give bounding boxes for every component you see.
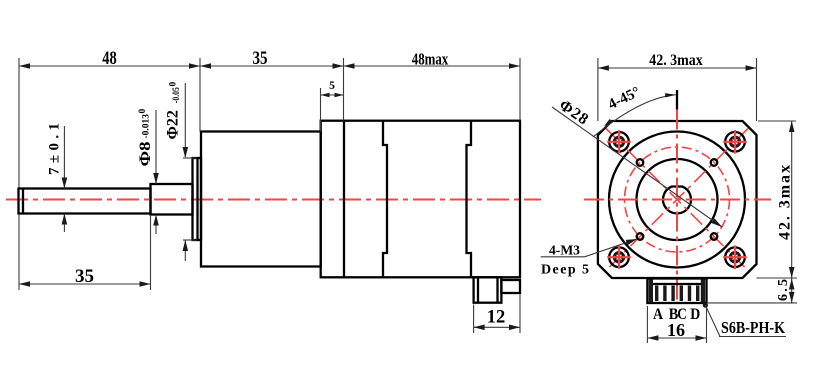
dimension 42.3max top bbox=[598, 52, 757, 121]
connector tab side view bbox=[501, 280, 520, 293]
side view centerline bbox=[6, 199, 541, 201]
dimension 5 bbox=[321, 80, 344, 132]
dimension phi22 tolerance bbox=[165, 82, 198, 262]
M3 hole top-left bbox=[637, 159, 644, 166]
svg-text:42. 3max: 42. 3max bbox=[649, 52, 703, 69]
dimension 6.5 bbox=[708, 278, 797, 303]
svg-text:35: 35 bbox=[75, 267, 94, 287]
front view horizontal centerline bbox=[584, 199, 771, 201]
svg-text:0: 0 bbox=[169, 82, 179, 87]
svg-text:Φ22: Φ22 bbox=[165, 110, 182, 140]
dimension 35 top bbox=[200, 49, 344, 132]
label 4-M3 Deep 5 with leader bbox=[541, 239, 637, 278]
shaft collar bbox=[151, 184, 193, 215]
dimension 7 plus-minus 0.1 bbox=[47, 123, 68, 232]
svg-text:12: 12 bbox=[487, 307, 506, 328]
svg-text:-0.05: -0.05 bbox=[172, 87, 182, 103]
svg-text:S6B-PH-K: S6B-PH-K bbox=[721, 318, 785, 337]
label phi28 with leader bbox=[552, 97, 722, 227]
M3 hole bottom-left bbox=[637, 233, 644, 240]
dimension 48max bbox=[344, 50, 521, 121]
M3 hole top-right bbox=[711, 159, 718, 166]
dimension 42.3max right bbox=[757, 121, 798, 278]
svg-text:5: 5 bbox=[329, 80, 335, 92]
shaft bbox=[19, 189, 151, 214]
svg-text:0: 0 bbox=[138, 109, 148, 114]
front view vertical centerline bbox=[676, 110, 678, 304]
diagonal centerline 2 bbox=[606, 129, 748, 271]
front view pilot circle phi22 bbox=[637, 159, 718, 240]
lamination stack right edge bbox=[467, 121, 472, 278]
svg-text:Φ8: Φ8 bbox=[137, 141, 154, 166]
corner screw bottom-left bbox=[607, 245, 631, 269]
dimension 48 bbox=[19, 49, 200, 188]
svg-text:42. 3max: 42. 3max bbox=[777, 165, 794, 240]
svg-text:-0.013: -0.013 bbox=[142, 114, 152, 139]
svg-text:48: 48 bbox=[102, 49, 117, 69]
svg-text:A: A bbox=[653, 306, 663, 323]
dimension 12 bbox=[474, 295, 520, 334]
M3 hole bottom-right bbox=[711, 233, 718, 240]
front view flange outline bbox=[598, 121, 757, 278]
svg-text:35: 35 bbox=[253, 49, 268, 69]
svg-text:D: D bbox=[690, 306, 700, 323]
front view gearbox circle phi36 bbox=[609, 132, 745, 268]
corner screw bottom-right bbox=[723, 245, 747, 269]
pin labels A B C D bbox=[653, 306, 700, 323]
pilot boss bbox=[193, 158, 202, 240]
bolt circle phi28 red dashed bbox=[625, 147, 730, 252]
front view shaft circle with flat bbox=[663, 187, 691, 214]
dimension 16 bbox=[647, 306, 706, 343]
diagonal centerline 1 bbox=[606, 129, 748, 271]
corner screw top-left bbox=[607, 130, 631, 154]
corner screw top-right bbox=[723, 130, 747, 154]
label S6B-PH-K with leader bbox=[703, 303, 786, 337]
label 4-45 chamfer with arc leader bbox=[593, 84, 677, 137]
svg-text:48max: 48max bbox=[412, 50, 449, 69]
connector side view bbox=[474, 277, 502, 302]
gearbox body bbox=[201, 132, 321, 267]
lamination stack left edge bbox=[383, 121, 387, 278]
dimension phi8 tolerance bbox=[137, 109, 159, 235]
svg-text:Deep 5: Deep 5 bbox=[541, 263, 589, 278]
svg-text:16: 16 bbox=[667, 320, 685, 340]
motor body outline bbox=[321, 121, 520, 278]
svg-text:6.5: 6.5 bbox=[776, 279, 791, 301]
dimension 35 bottom bbox=[19, 214, 151, 290]
connector front view bbox=[647, 279, 706, 304]
